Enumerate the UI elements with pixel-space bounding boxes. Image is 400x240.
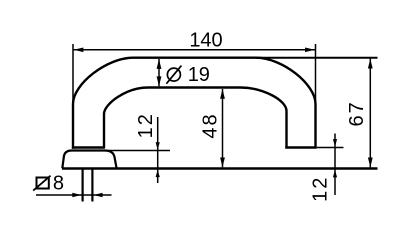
dimension 12 right top arrow <box>333 139 337 147</box>
spindle left line <box>81 170 83 202</box>
svg-text:140: 140 <box>189 29 222 51</box>
rose (escutcheon) outline <box>62 151 116 169</box>
dimension D19 up arrow <box>157 59 162 69</box>
dimension square-8 right arrow <box>94 193 103 197</box>
spindle right line <box>91 170 93 202</box>
handle outer profile <box>73 58 316 149</box>
dimension square-8 left arrow <box>72 193 81 197</box>
dimension 48 line <box>222 89 224 167</box>
dimension 12 left top arrow <box>156 142 160 150</box>
dimension square-8 line <box>36 194 112 196</box>
dimension D19 down arrow <box>157 76 162 86</box>
dimension 67 down arrow <box>368 158 373 168</box>
dimension 12 left bottom arrow <box>156 170 160 178</box>
dimension 48 down arrow <box>220 158 225 168</box>
dimension D19 label <box>166 64 210 86</box>
svg-text:12: 12 <box>135 112 157 138</box>
square symbol slash <box>33 176 50 191</box>
dimension 140 left arrow <box>74 48 84 53</box>
dimension 67 line <box>369 59 371 168</box>
svg-text:48: 48 <box>200 112 222 138</box>
handle inner profile <box>104 88 287 149</box>
svg-text:19: 19 <box>188 64 210 86</box>
dimension 67 up arrow <box>368 59 373 69</box>
dimension 12 left line <box>157 117 159 183</box>
dimension 12 right line <box>334 134 336 196</box>
dimension 140 right extension <box>315 44 317 103</box>
dimension 12 right bottom arrow <box>333 170 337 178</box>
svg-text:12: 12 <box>310 176 332 202</box>
tube end line (right leg open end) <box>285 146 317 148</box>
tube-rose joint line <box>72 146 105 148</box>
dimension 48 up arrow <box>220 89 225 99</box>
dimension 140 right arrow <box>305 48 315 53</box>
dimension 140 line <box>73 49 316 51</box>
dimension 140 left extension <box>72 44 74 104</box>
dimension D19 shaft <box>158 59 160 86</box>
top edge extension line for 67 dim <box>256 57 378 59</box>
svg-text:67: 67 <box>346 100 368 126</box>
door face baseline <box>62 167 378 169</box>
rose top extension line for left 12 dim <box>107 150 170 152</box>
tube end extension line for 12 dim <box>317 147 344 149</box>
square symbol <box>37 178 49 189</box>
svg-text:8: 8 <box>53 173 64 195</box>
